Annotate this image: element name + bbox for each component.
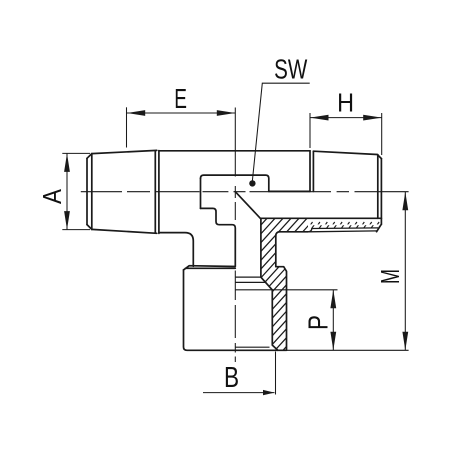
svg-text:P: P <box>303 315 334 330</box>
svg-text:H: H <box>337 89 354 117</box>
svg-text:SW: SW <box>274 55 308 86</box>
svg-text:B: B <box>224 360 239 393</box>
svg-text:E: E <box>174 84 187 116</box>
svg-text:A: A <box>38 188 67 204</box>
svg-text:M: M <box>375 269 404 284</box>
